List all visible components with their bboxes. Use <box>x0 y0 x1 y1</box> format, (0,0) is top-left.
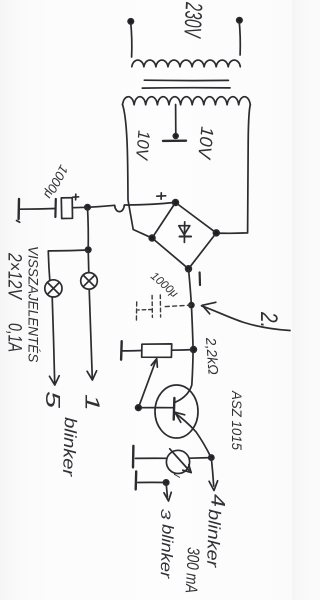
node: terminal 3 junction dot <box>163 480 168 485</box>
capacitor C1 plate (line) <box>54 199 57 217</box>
wire: secondary bottom lead to bridge <box>123 105 152 238</box>
transformer T1 primary winding <box>132 60 241 67</box>
label: minus sign at bridge output <box>199 273 202 286</box>
node: center tap junction dot <box>173 134 178 139</box>
wire: center tap <box>175 105 177 136</box>
node: dashed cap junction dot <box>189 303 194 308</box>
node: bridge left vertex (+ output) <box>173 200 179 206</box>
transistor Q1 emitter with arrow into base (PNP) <box>174 413 211 458</box>
svg-text:10V: 10V <box>132 130 154 162</box>
wire: C1 to ground <box>19 208 55 211</box>
node: resistor junction dot <box>191 347 197 353</box>
svg-text:300 mA: 300 mA <box>182 547 203 594</box>
wire: node A to node B <box>87 207 90 250</box>
svg-text:1000μ: 1000μ <box>41 163 72 202</box>
wire: node B down and right to lamp L2 <box>48 250 88 280</box>
wire: R1 top to minus rail <box>172 349 193 352</box>
svg-text:blinker: blinker <box>203 509 224 569</box>
svg-text:blinker: blinker <box>59 417 80 478</box>
capacitor C1 plate (box) <box>61 198 72 219</box>
capacitor C2 dashed plate 2 <box>151 295 153 317</box>
wire: primary terminal lead top <box>239 20 240 55</box>
svg-text:1: 1 <box>81 394 103 411</box>
annotation arrow pointing at minus rail <box>202 306 291 331</box>
transistor Q1 base bar <box>172 398 175 420</box>
svg-text:5: 5 <box>41 391 63 409</box>
label: plus sign at bridge output <box>157 193 166 199</box>
node: base junction dot <box>136 405 142 411</box>
wire: lamp L2 output arrow to terminal 5 <box>52 297 55 384</box>
capacitor C1 1000u lead <box>73 206 88 208</box>
bridge rectifier edge L-T <box>176 203 217 233</box>
svg-text:0,1A: 0,1A <box>4 323 25 352</box>
ground: C2 dashed ground bar <box>135 302 137 322</box>
wire: emitter node down to meter <box>190 457 212 460</box>
svg-text:10V: 10V <box>194 126 217 162</box>
transformer T1 core line 1 <box>144 79 228 81</box>
node: bridge top vertex (AC in) <box>213 230 219 236</box>
wire: minus rail from bridge to transistor collector <box>175 269 193 403</box>
wire: R1 bottom lead <box>123 350 142 352</box>
bridge rectifier edge B-L <box>152 203 175 239</box>
svg-text:3: 3 <box>158 509 173 521</box>
node: bridge bottom vertex (AC in) <box>149 235 155 241</box>
transistor Q1 ASZ1015 circle <box>155 385 198 438</box>
ground: terminal 3 bar <box>134 471 137 489</box>
label: plus sign of C1 <box>73 194 79 200</box>
lamp L1 cross <box>83 275 95 287</box>
node A: cap junction dot <box>85 205 90 210</box>
wire: meter to terminal bar <box>136 457 167 459</box>
svg-text:230V: 230V <box>178 1 207 39</box>
transformer T1 secondary winding <box>123 97 251 105</box>
resistor R1 2.2k box (potentiometer) <box>142 344 172 357</box>
meter M1 circle <box>166 450 189 473</box>
bridge rectifier edge T-R <box>189 233 217 269</box>
svg-text:ASZ 1015: ASZ 1015 <box>229 390 245 450</box>
ground: C1 ground bar <box>17 199 20 219</box>
svg-text:v: v <box>171 472 183 479</box>
node: bridge right vertex (- output) <box>186 266 192 272</box>
wire: terminal 3 stem <box>138 481 166 483</box>
ground: center tap ground bar <box>163 139 186 142</box>
ground: meter terminal bar <box>132 446 135 468</box>
wire: primary terminal lead bottom <box>131 21 132 57</box>
wire: + rail from bridge down to filter cap, with hop over AC wire <box>88 203 175 212</box>
svg-text:2,2kΩ: 2,2kΩ <box>203 336 222 375</box>
ground: R1 bottom bar <box>120 341 123 360</box>
svg-text:2×12V: 2×12V <box>4 252 25 301</box>
photo edge tick <box>17 221 20 223</box>
lamp L2 cross <box>47 282 59 294</box>
wire: base lead <box>138 407 173 409</box>
wire: lamp L1 output arrow to terminal 1 <box>89 289 92 378</box>
wire: secondary top lead to bridge <box>216 105 250 234</box>
svg-text:2.: 2. <box>255 311 282 328</box>
lamp L1 circle <box>81 273 98 290</box>
wire: arrow to label 3 <box>166 483 167 498</box>
bridge rectifier edge R-B <box>152 238 188 269</box>
wire: output arrow to terminal 4 <box>211 458 213 486</box>
capacitor C2 dashed lead to ground <box>138 309 152 312</box>
svg-text:1000μ: 1000μ <box>148 270 180 300</box>
svg-text:VISSZAJELENTÉS: VISSZAJELENTÉS <box>26 246 41 362</box>
svg-text:blinker: blinker <box>157 524 176 579</box>
lamp L2 circle <box>45 280 62 297</box>
capacitor C2 dashed plate 1 <box>159 295 161 317</box>
node: primary terminal dot bottom <box>128 19 133 24</box>
node: primary terminal dot top <box>237 18 242 23</box>
wire: node B right to lamp L1 <box>87 250 90 273</box>
diode symbol inside bridge <box>179 222 191 243</box>
node: emitter output junction dot <box>209 455 214 460</box>
svg-text:4: 4 <box>207 494 228 507</box>
capacitor C2 (dashed, 1000u) wire from rail <box>162 305 191 307</box>
meter M1 diagonal arrow <box>170 449 190 471</box>
node B: lamp branch dot <box>86 247 91 252</box>
wiper arrow from base node to R1 <box>138 362 155 408</box>
transformer T1 core line 2 <box>142 87 230 89</box>
